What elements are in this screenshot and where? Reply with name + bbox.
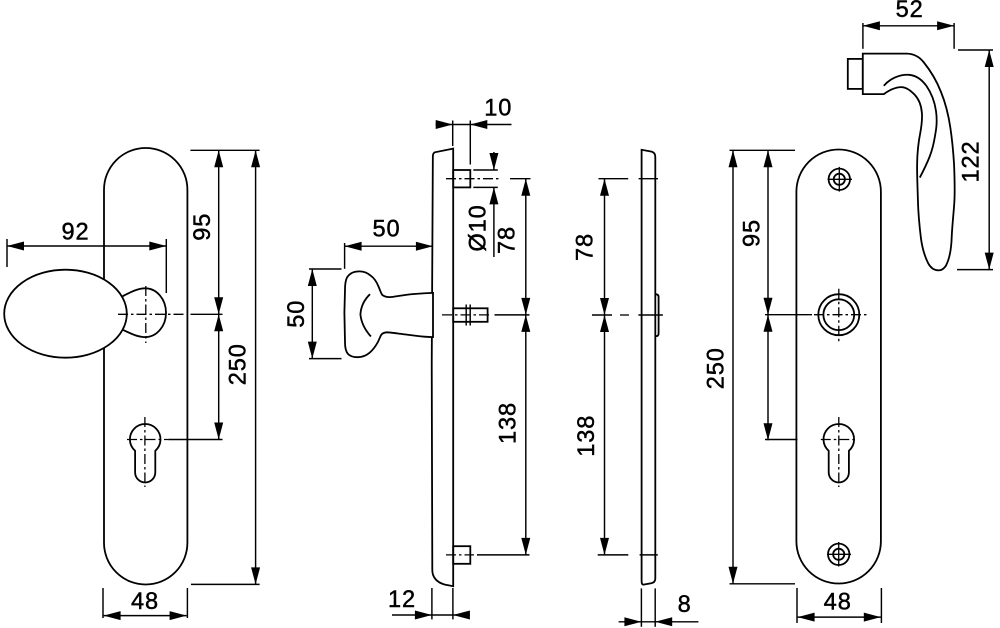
svg-text:138: 138: [574, 415, 600, 457]
svg-text:78: 78: [495, 226, 521, 254]
svg-text:250: 250: [703, 347, 729, 389]
svg-text:48: 48: [824, 590, 852, 616]
svg-text:250: 250: [226, 343, 252, 385]
svg-text:50: 50: [284, 300, 310, 328]
svg-text:48: 48: [131, 589, 159, 615]
svg-text:52: 52: [896, 0, 924, 23]
svg-text:50: 50: [372, 217, 400, 243]
svg-text:95: 95: [740, 219, 766, 247]
svg-text:95: 95: [190, 213, 216, 241]
svg-text:138: 138: [496, 402, 522, 444]
svg-text:122: 122: [959, 140, 985, 182]
svg-text:92: 92: [61, 219, 89, 245]
svg-text:78: 78: [573, 233, 599, 261]
svg-text:10: 10: [484, 96, 512, 122]
svg-text:Ø10: Ø10: [465, 204, 491, 251]
svg-text:8: 8: [678, 592, 692, 618]
svg-text:12: 12: [388, 587, 416, 613]
